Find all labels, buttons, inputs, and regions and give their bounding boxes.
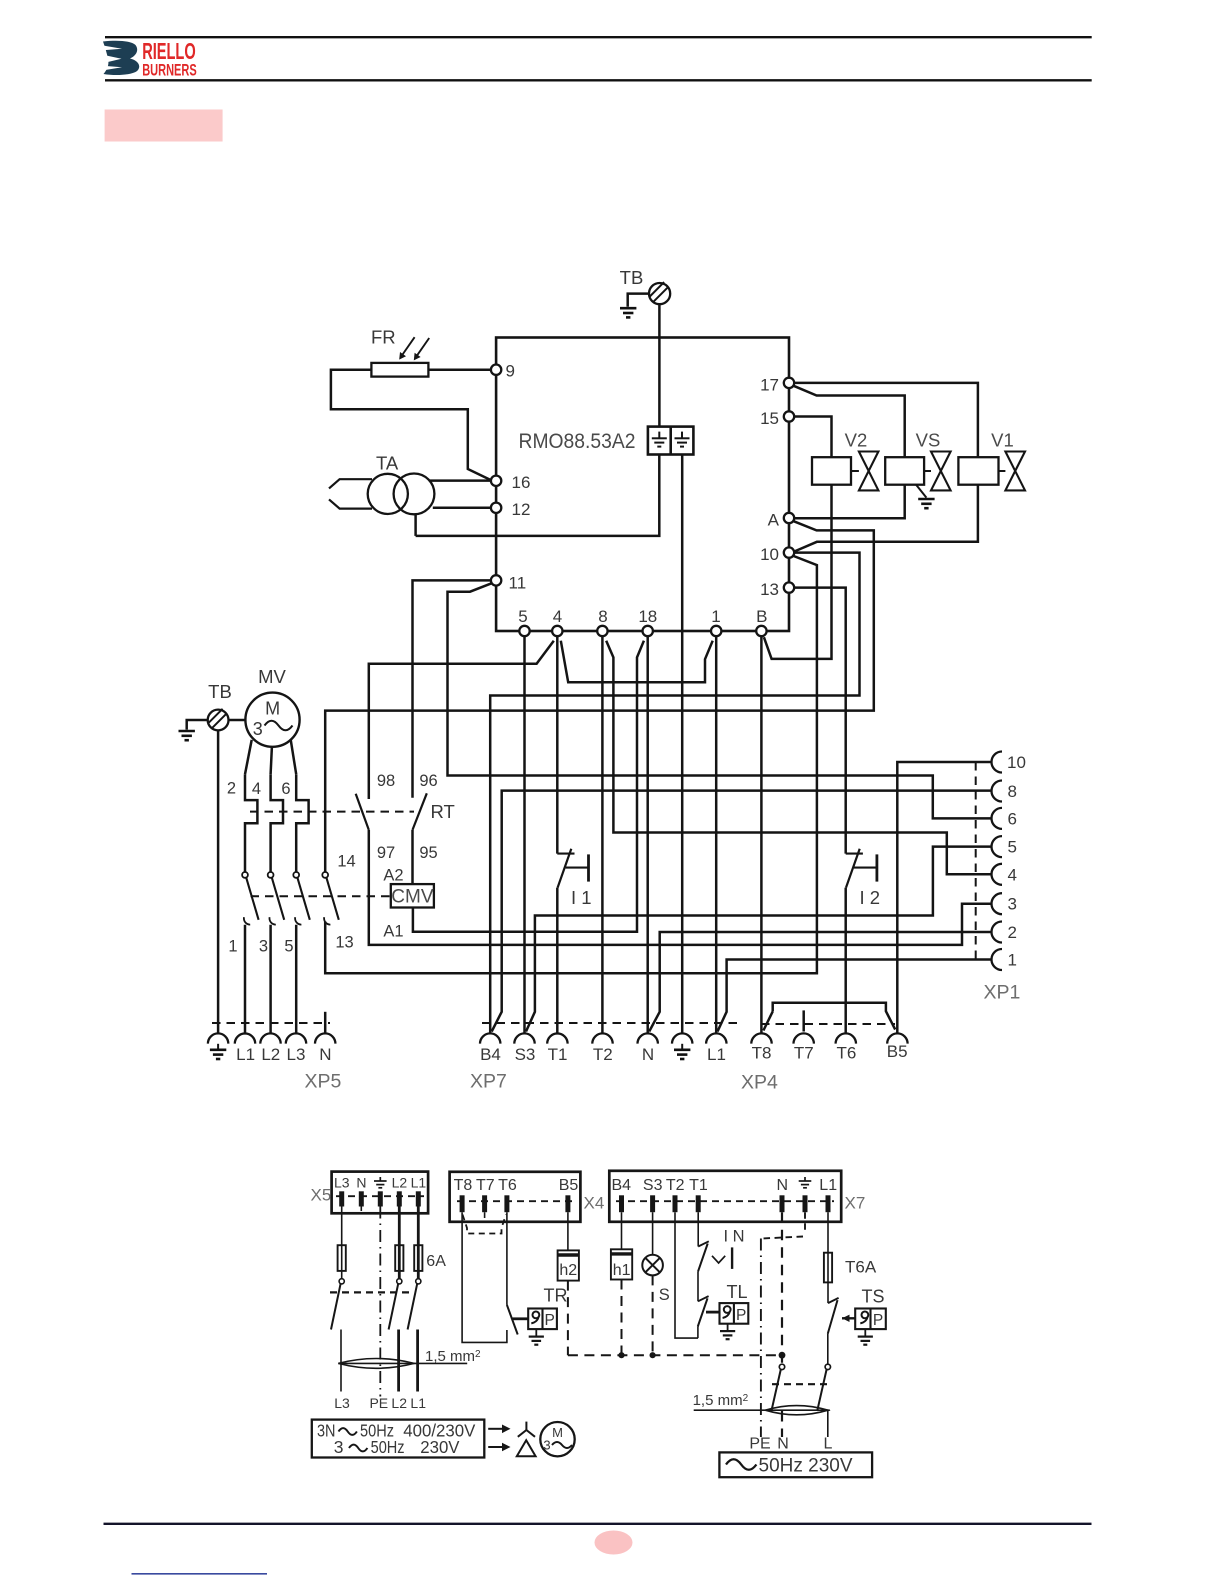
X7 earth to PE dashed link [762, 1212, 805, 1238]
wire L2 + fuse 6A [389, 1207, 404, 1392]
svg-text:N: N [319, 1045, 331, 1064]
svg-text:TS: TS [862, 1287, 885, 1307]
svg-text:1: 1 [1008, 951, 1017, 970]
svg-text:L1: L1 [707, 1045, 726, 1064]
svg-text:3: 3 [259, 938, 268, 956]
X4 dashed jumper bracket [463, 1215, 507, 1234]
svg-text:B: B [756, 607, 767, 626]
svg-text:X5: X5 [311, 1186, 332, 1205]
wire L3 + fuse [331, 1207, 346, 1392]
svg-text:8: 8 [598, 607, 607, 626]
lamp S [642, 1255, 663, 1276]
wire pin15 to V2 to pinB [764, 417, 832, 659]
svg-text:T7: T7 [794, 1044, 814, 1063]
supply label box [312, 1420, 485, 1458]
wire TB-left to earth [187, 720, 208, 730]
pink heading block [105, 110, 223, 142]
ground (TL) [720, 1324, 735, 1340]
valve V2 [812, 452, 878, 491]
svg-text:A1: A1 [383, 923, 403, 941]
dashed bus [568, 1354, 782, 1356]
svg-text:T1: T1 [689, 1177, 708, 1194]
wire XP1-5 to S3 [526, 847, 992, 1032]
svg-text:13: 13 [760, 580, 779, 599]
svg-text:3N: 3N [317, 1420, 336, 1440]
svg-text:1: 1 [228, 938, 237, 956]
wire T2 return [675, 1212, 698, 1338]
svg-text:B5: B5 [559, 1177, 579, 1194]
motor lead to heater 4 [271, 747, 272, 775]
N below switch dashed [781, 1411, 783, 1437]
wire TA to pin 12 [433, 507, 491, 510]
svg-text:95: 95 [419, 844, 437, 862]
svg-text:P: P [545, 1312, 555, 1329]
svg-text:TR: TR [544, 1286, 568, 1306]
svg-text:3: 3 [334, 1437, 344, 1457]
wire TB-left down to XP5 earth [217, 731, 220, 1034]
svg-text:N: N [642, 1045, 654, 1064]
star symbol [518, 1422, 535, 1437]
control box RMO88.53A2 [496, 338, 789, 632]
svg-text:230V: 230V [420, 1437, 460, 1457]
svg-text:13: 13 [335, 934, 353, 952]
delta symbol [517, 1440, 536, 1456]
X4 pins [462, 1195, 568, 1212]
motor MV sine glyph [265, 721, 293, 731]
svg-text:50Hz 230V: 50Hz 230V [759, 1456, 853, 1477]
switch I1 [557, 849, 588, 888]
arrow 1 [488, 1425, 510, 1434]
svg-text:TA: TA [376, 453, 399, 474]
svg-text:L: L [824, 1436, 833, 1453]
svg-text:4: 4 [1008, 865, 1017, 884]
svg-text:L1: L1 [411, 1175, 427, 1191]
svg-text:5: 5 [1008, 838, 1017, 857]
svg-text:XP5: XP5 [305, 1071, 342, 1093]
svg-text:96: 96 [419, 772, 437, 790]
footer page ellipse [595, 1531, 633, 1555]
relay RT contact 98-97 blade [356, 794, 369, 830]
svg-text:6: 6 [1008, 809, 1017, 828]
contactor CMV coil [391, 884, 434, 907]
svg-text:P: P [736, 1307, 746, 1324]
wire pin10 to contact13 [325, 556, 817, 973]
wire pin8 to XP1-4 [606, 641, 992, 875]
valve VS [885, 452, 950, 491]
wire pin10 to B4 [490, 553, 859, 1034]
ground (TR) [529, 1329, 544, 1345]
svg-text:11: 11 [509, 574, 527, 593]
svg-text:B4: B4 [480, 1045, 501, 1064]
header rule bottom [105, 79, 1092, 81]
svg-text:S3: S3 [643, 1177, 663, 1194]
ground (TB top) [620, 308, 636, 317]
svg-text:h2: h2 [559, 1262, 577, 1279]
svg-text:XP7: XP7 [470, 1071, 507, 1093]
svg-text:RMO88.53A2: RMO88.53A2 [519, 429, 636, 453]
svg-text:2: 2 [1008, 923, 1017, 942]
svg-text:97: 97 [377, 844, 395, 862]
svg-text:TB: TB [620, 267, 644, 288]
230V box sine glyph [726, 1459, 756, 1470]
supply box sine glyphs [339, 1428, 357, 1435]
svg-text:L1: L1 [410, 1395, 426, 1411]
wire TA to pin 16 [430, 479, 492, 482]
wire XP1-10 to B5 [897, 762, 992, 1033]
svg-text:CMV: CMV [391, 887, 434, 908]
svg-text:XP1: XP1 [984, 982, 1021, 1004]
wire pinB to T8 [760, 636, 763, 1033]
wire pin17 to VS to pinA [794, 386, 905, 519]
ground (VS) [916, 485, 935, 509]
functional earth box (double) [648, 427, 694, 455]
svg-text:5: 5 [284, 938, 293, 956]
svg-text:12: 12 [512, 500, 531, 519]
ground (TS) [858, 1329, 873, 1345]
header rule top [105, 36, 1092, 38]
svg-text:A: A [768, 511, 780, 530]
wire pinA to contact14 [325, 521, 874, 872]
wire XP1-2 to N [649, 932, 992, 1032]
svg-text:A2: A2 [383, 867, 403, 885]
L below switch [827, 1411, 829, 1437]
PE dash-dot [379, 1207, 381, 1397]
svg-text:2: 2 [227, 780, 236, 798]
pin circles [491, 365, 794, 637]
wire RT95 to CMV A2 [411, 830, 414, 884]
wire pin8 to T2 [601, 636, 604, 1033]
XP4 terminal arcs [751, 1033, 907, 1043]
svg-text:I N: I N [724, 1228, 745, 1246]
wire RT97 to XP1-3 [369, 830, 992, 945]
switch I2 [846, 849, 877, 888]
X4 T7 stub [484, 1212, 486, 1218]
cable lens left [338, 1359, 467, 1369]
svg-text:98: 98 [377, 772, 395, 790]
overload heater element L2 [271, 774, 283, 872]
footer blue link line [132, 1573, 268, 1575]
svg-text:T6A: T6A [845, 1258, 877, 1277]
logo mark [102, 41, 140, 75]
wire pin17 to V1 to pin10 [794, 383, 978, 552]
wire pin11 to RT96 [413, 580, 492, 797]
svg-text:PE: PE [369, 1395, 388, 1411]
overload heater element L3 [296, 774, 308, 872]
contactor link (dashed) [251, 895, 391, 897]
svg-text:T1: T1 [548, 1045, 568, 1064]
wire TA to earth box [414, 514, 417, 536]
X7 earth glyph [799, 1177, 812, 1188]
svg-text:9: 9 [506, 362, 515, 381]
svg-text:15: 15 [760, 409, 779, 428]
main switch L pole [817, 1364, 830, 1411]
wire pin11 to XP1-6 [448, 583, 992, 818]
X4 pin row dashed [457, 1200, 573, 1202]
valve V1 [958, 452, 1025, 491]
svg-text:10: 10 [1007, 753, 1026, 772]
N dashed line [781, 1212, 783, 1364]
svg-text:3: 3 [543, 1438, 550, 1453]
fuse T6A [824, 1253, 832, 1303]
wire bridge T8 to B5 [773, 1003, 896, 1030]
ground (XP7) [674, 1044, 690, 1059]
terminal block X5 [332, 1172, 429, 1214]
X7 pins [622, 1195, 829, 1212]
main switch link dashed [772, 1383, 828, 1385]
svg-text:T7: T7 [476, 1177, 495, 1194]
X5 pins [342, 1191, 419, 1206]
thermostat TS contact [828, 1298, 855, 1364]
wire earth box right cell down to XP7 earth [681, 455, 684, 1034]
X7 pin row dashed [616, 1200, 834, 1202]
pressure switch TS [855, 1309, 886, 1330]
svg-text:N: N [777, 1177, 789, 1194]
wire L1 + fuse 6A [408, 1207, 423, 1392]
pressure switch TL [720, 1303, 749, 1324]
fan motor MV [229, 693, 300, 747]
wire B5 to h2 [567, 1212, 569, 1250]
svg-text:S: S [659, 1286, 670, 1304]
lamp h2 [558, 1250, 579, 1280]
svg-text:TL: TL [727, 1282, 748, 1302]
svg-text:16: 16 [512, 473, 531, 492]
svg-text:M: M [265, 699, 280, 719]
svg-text:1,5 mm2: 1,5 mm2 [693, 1392, 749, 1409]
TR contact blade [507, 1305, 518, 1335]
svg-text:4: 4 [553, 607, 562, 626]
photoresistor FR [371, 337, 429, 376]
wire earth box left cell to TA return [416, 455, 660, 536]
svg-text:T8: T8 [752, 1044, 772, 1063]
wire I2 to T6 [844, 888, 847, 1034]
thermostat TL contact [698, 1296, 720, 1338]
svg-text:1,5 mm2: 1,5 mm2 [425, 1348, 481, 1365]
svg-text:T8: T8 [454, 1177, 473, 1194]
wire pin4 to I1 [556, 636, 559, 853]
X5 N stub [360, 1207, 362, 1212]
svg-text:L3: L3 [287, 1045, 306, 1064]
wire T6 to TR [506, 1212, 508, 1305]
footer rule [104, 1523, 1092, 1525]
svg-text:T2: T2 [666, 1177, 685, 1194]
svg-text:L3: L3 [334, 1175, 350, 1191]
svg-text:T6: T6 [836, 1044, 856, 1063]
svg-text:TB: TB [208, 681, 232, 702]
wire pin1 to L1 [715, 636, 718, 1033]
svg-text:N: N [356, 1175, 366, 1191]
overload heater element L1 [245, 774, 257, 872]
wire pin13 to I2 [794, 588, 846, 854]
XP5 dashed row [212, 1022, 330, 1024]
ignition transformer TA [329, 474, 434, 515]
wire pin4 to pin1 link [561, 641, 713, 683]
svg-text:18: 18 [638, 607, 657, 626]
svg-text:5: 5 [518, 607, 527, 626]
svg-text:L2: L2 [392, 1175, 408, 1191]
contact CMV 5-6 [293, 872, 309, 1033]
cable lens right [694, 1406, 830, 1415]
relay RT contact 96-95 blade [413, 793, 427, 830]
svg-text:3: 3 [253, 719, 263, 739]
XP1 terminal arcs [992, 752, 1003, 971]
wire XP1-1 to L1 [718, 960, 992, 1032]
svg-text:50Hz: 50Hz [371, 1437, 405, 1457]
lamp h1 [611, 1249, 632, 1279]
svg-text:L2: L2 [261, 1045, 280, 1064]
wire IN to TL [697, 1272, 699, 1302]
svg-text:BURNERS: BURNERS [142, 61, 197, 80]
motor small sine glyph [552, 1442, 572, 1448]
bus junction dots [618, 1352, 785, 1359]
contact CMV 1-2 [242, 872, 259, 1033]
svg-text:6: 6 [281, 780, 290, 798]
svg-text:PE: PE [749, 1436, 770, 1453]
wire FR to pin 9 [428, 368, 491, 371]
svg-text:B4: B4 [612, 1177, 632, 1194]
wire S3 to S [652, 1212, 654, 1255]
svg-text:V2: V2 [845, 430, 868, 451]
terminal block X7 [609, 1171, 841, 1222]
X5 earth glyph [374, 1177, 387, 1188]
wire TB to earth [628, 294, 649, 307]
wire XP1-8 to B4 [492, 791, 992, 1032]
svg-text:V1: V1 [991, 430, 1014, 451]
XP4 dashed row [761, 1023, 895, 1025]
XP7 terminal arcs [480, 1033, 727, 1043]
switch IN [698, 1241, 732, 1271]
svg-text:T6: T6 [498, 1177, 517, 1194]
svg-text:XP4: XP4 [741, 1072, 778, 1094]
svg-text:VS: VS [916, 430, 941, 451]
svg-text:17: 17 [760, 376, 779, 395]
ground (TB left) [179, 731, 195, 740]
wire I1 to T1 [556, 888, 559, 1034]
h2 dashed drop [567, 1281, 569, 1356]
S dashed drop [652, 1275, 654, 1355]
svg-text:L3: L3 [334, 1395, 350, 1411]
terminal block X4 [450, 1172, 581, 1222]
motor symbol small [540, 1422, 574, 1456]
XP7 dashed row [482, 1022, 739, 1024]
svg-text:L1: L1 [819, 1177, 837, 1194]
230V label box [719, 1452, 872, 1477]
arrow 2 [488, 1443, 510, 1452]
svg-text:3: 3 [1008, 895, 1017, 914]
svg-text:S3: S3 [515, 1045, 536, 1064]
wire pin5 to S3 [523, 636, 526, 1033]
svg-text:10: 10 [760, 545, 779, 564]
svg-text:4: 4 [252, 780, 261, 798]
svg-text:L2: L2 [391, 1395, 407, 1411]
svg-text:N: N [777, 1436, 789, 1453]
svg-text:8: 8 [1008, 782, 1017, 801]
svg-text:T2: T2 [593, 1045, 613, 1064]
motor lead to heater 6 [291, 740, 297, 775]
svg-text:I 2: I 2 [860, 887, 881, 908]
PE dash-dot line [760, 1239, 762, 1438]
ground terminal TB (top) [649, 282, 670, 304]
stub T7 [802, 1010, 805, 1031]
svg-text:X4: X4 [584, 1194, 605, 1213]
h1 dashed drop [621, 1280, 623, 1356]
svg-text:B5: B5 [887, 1042, 908, 1061]
svg-text:P: P [873, 1312, 883, 1329]
pressure switch TR [528, 1309, 557, 1330]
svg-text:FR: FR [371, 327, 396, 348]
ground (XP5) [210, 1044, 226, 1059]
contact CMV 14-13 [322, 872, 338, 925]
main switch link dashed [330, 1291, 414, 1293]
overload trip linkage (dashed) [250, 811, 414, 813]
wire pin4 to RT98 [369, 641, 554, 799]
svg-text:14: 14 [337, 853, 355, 871]
svg-text:RT: RT [431, 801, 455, 822]
contact CMV 3-4 [268, 872, 285, 1033]
XP1 dashed column [975, 762, 977, 960]
X5 pin row dashed [336, 1195, 424, 1197]
wire T8 return [462, 1212, 507, 1342]
svg-text:MV: MV [258, 666, 286, 687]
svg-text:X7: X7 [845, 1194, 866, 1213]
svg-text:M: M [552, 1425, 563, 1440]
svg-text:1: 1 [711, 607, 720, 626]
wire L1 to fuse T6A [827, 1212, 829, 1253]
svg-text:I 1: I 1 [571, 887, 592, 908]
svg-text:L1: L1 [236, 1045, 255, 1064]
XP5 terminal arcs [208, 1033, 336, 1043]
wire TB down into box [658, 304, 661, 427]
TR link [513, 1317, 529, 1320]
wire pin18 to CMV A1 [413, 641, 644, 932]
svg-text:h1: h1 [613, 1262, 631, 1279]
wire B4 to h1 [621, 1212, 623, 1249]
svg-text:6A: 6A [426, 1253, 446, 1270]
wire FR to pin 16 [331, 370, 491, 481]
stub XP5 N [324, 1012, 327, 1034]
wire T1 to IN [697, 1212, 699, 1246]
wire pin18 to N [646, 636, 649, 1033]
main switch N pole [771, 1364, 784, 1411]
motor lead to heater 2 [245, 740, 252, 774]
logo wordmark [142, 38, 197, 80]
ground terminal TB (left) [208, 709, 229, 731]
